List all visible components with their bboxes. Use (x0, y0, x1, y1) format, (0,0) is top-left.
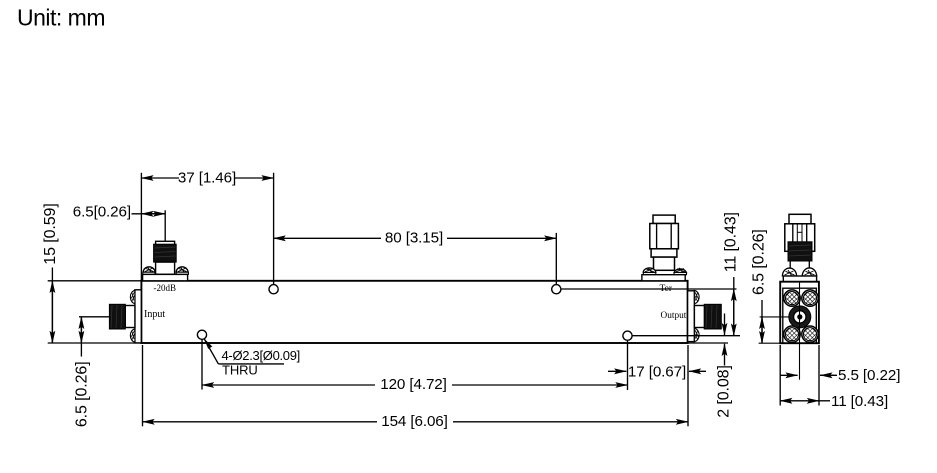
connector P2 threads (109, 304, 125, 329)
end view hex body (785, 224, 815, 252)
connector P2 neck (125, 306, 135, 328)
dim 37 dimension line (141, 177, 273, 179)
dim 120 left extension (hole H3) (201, 340, 203, 390)
dim 6.5 bottom-left extension line (input centerline) (79, 316, 110, 318)
connector P3 (Output) flange (688, 291, 695, 342)
dim 154 right extension (body right) (687, 345, 689, 426)
connector P3 threads (704, 304, 721, 329)
dim 17 text (628, 363, 686, 380)
dim 120 dimension line (202, 384, 628, 386)
end view horizontal centerline (760, 316, 789, 318)
dim 11 holes row spacing dimension line (733, 277, 735, 336)
dim 120/17 shared extension (hole H4) (627, 341, 629, 390)
svg-text:-20dB: -20dB (154, 283, 177, 293)
dim 17 left arrow (outside) (608, 370, 626, 372)
svg-text:Unit: mm: Unit: mm (17, 4, 105, 30)
dim 6.5 top-left dimension line (132, 213, 166, 215)
connector P2 (Input) flange (135, 290, 141, 343)
end view screw TR (802, 290, 818, 306)
connector P1 (-20dB coupled port) cap (156, 241, 175, 247)
svg-text:120 [4.72]: 120 [4.72] (380, 376, 447, 393)
end view inner panel (783, 288, 817, 343)
svg-text:11 [0.43]: 11 [0.43] (723, 212, 740, 272)
connector P4 left screw dome (643, 268, 656, 275)
connector P4 hex body (650, 224, 679, 249)
end view threads (788, 242, 812, 261)
end view block bottom extension (left) (759, 342, 781, 344)
svg-text:11 [0.43]: 11 [0.43] (831, 393, 888, 410)
hole H2 top-right (552, 285, 561, 294)
connector P1 base plate (143, 274, 188, 280)
connector P4 step (651, 249, 677, 257)
connector P1 centerline (164, 210, 166, 241)
svg-text:Input: Input (144, 309, 165, 320)
svg-text:4-Ø2.3[Ø0.09]: 4-Ø2.3[Ø0.09] (222, 348, 300, 363)
svg-text:2 [0.08]: 2 [0.08] (716, 365, 733, 418)
body bottom edge extension (left) (48, 342, 142, 344)
dim 5.5 left arrow (outside) (780, 374, 797, 376)
svg-text:37 [1.46]: 37 [1.46] (178, 169, 236, 186)
connector P3 top screw dome (694, 290, 699, 303)
end view left edge extension (779, 345, 781, 406)
end view right edge extension (818, 345, 820, 406)
end view flange (783, 276, 816, 282)
connector P4 (Ter port) cap (653, 215, 675, 223)
end view screw TL (784, 290, 800, 306)
end view screw BR (802, 326, 818, 342)
svg-text:THRU: THRU (222, 363, 258, 378)
dim 37 right extension line (to hole H1) (273, 173, 275, 285)
dim 154 dimension line (143, 421, 689, 423)
body bottom edge extension (right) (688, 342, 728, 344)
connector P2 bottom screw dome (130, 329, 135, 342)
end view thread-to-dome legs (790, 261, 809, 268)
dim 2 lower arrow (724, 344, 726, 366)
connector P1 threads (154, 244, 177, 262)
svg-text:154 [6.06]: 154 [6.06] (381, 413, 448, 430)
svg-text:6.5 [0.26]: 6.5 [0.26] (751, 229, 768, 295)
dim 80 text (381, 230, 447, 247)
dim 120 text (375, 376, 452, 393)
connector P2 top screw dome (130, 290, 135, 303)
dim 154 left extension (body left) (142, 345, 144, 426)
connector P4 base plate (642, 275, 685, 281)
end view screw BL (784, 326, 800, 342)
connector P4 neck (654, 257, 675, 270)
connector P3 bottom screw dome (694, 328, 699, 341)
dim 5.5 right arrow (outside) (820, 374, 834, 376)
holes top centerline extension (561, 288, 737, 290)
dim 17 right arrow (outside) (689, 370, 706, 372)
holes bottom centerline extension (632, 335, 741, 337)
end view center connector (789, 306, 811, 328)
dim 5.5 stub to text (820, 374, 837, 376)
connector P4 right screw dome (674, 268, 686, 275)
dim 11 end view dimension line (780, 400, 819, 402)
svg-text:6.5[0.26]: 6.5[0.26] (73, 204, 131, 221)
hole H3 bottom-left (197, 330, 206, 339)
dim 11 end view stub to text (819, 400, 830, 402)
hole H1 top-left (269, 285, 278, 294)
leader 4-holes callout arrow (204, 339, 284, 364)
connector P1 neck (156, 262, 175, 274)
svg-text:6.5 [0.26]: 6.5 [0.26] (74, 361, 91, 427)
dim 6.5 top-left arrows (141, 213, 165, 215)
dim 6.5 end view dimension line (761, 300, 763, 343)
connector P1 left screw dome (143, 267, 155, 275)
dim 37 left extension line (140, 173, 142, 281)
dim 80 dimension line (274, 237, 557, 239)
dim 37 text (178, 169, 236, 186)
hole H4 bottom-right (623, 331, 632, 340)
svg-text:15 [0.59]: 15 [0.59] (42, 203, 59, 264)
end view block (780, 282, 819, 344)
svg-text:80 [3.15]: 80 [3.15] (385, 230, 443, 247)
dim 2 upper arrow (724, 314, 726, 336)
dim 80 right extension line (to hole H2) (555, 233, 557, 285)
end view cap (789, 214, 811, 224)
end view left screw dome (782, 268, 796, 276)
connector P1 right screw dome (176, 267, 188, 275)
dim 154 text (377, 413, 453, 430)
coupler body (front view) (141, 281, 687, 343)
svg-text:5.5 [0.22]: 5.5 [0.22] (838, 367, 900, 384)
connector P3 neck (694, 306, 704, 328)
body top edge extension (left) (48, 280, 142, 282)
svg-text:17 [0.67]: 17 [0.67] (628, 363, 686, 380)
dim 6.5 bottom-left dimension line (80, 317, 82, 357)
end view right screw dome (802, 268, 816, 276)
end view vertical centerline (799, 282, 801, 380)
svg-text:Output: Output (661, 311, 687, 321)
dim 15 dimension line (body height, far left) (51, 268, 53, 344)
